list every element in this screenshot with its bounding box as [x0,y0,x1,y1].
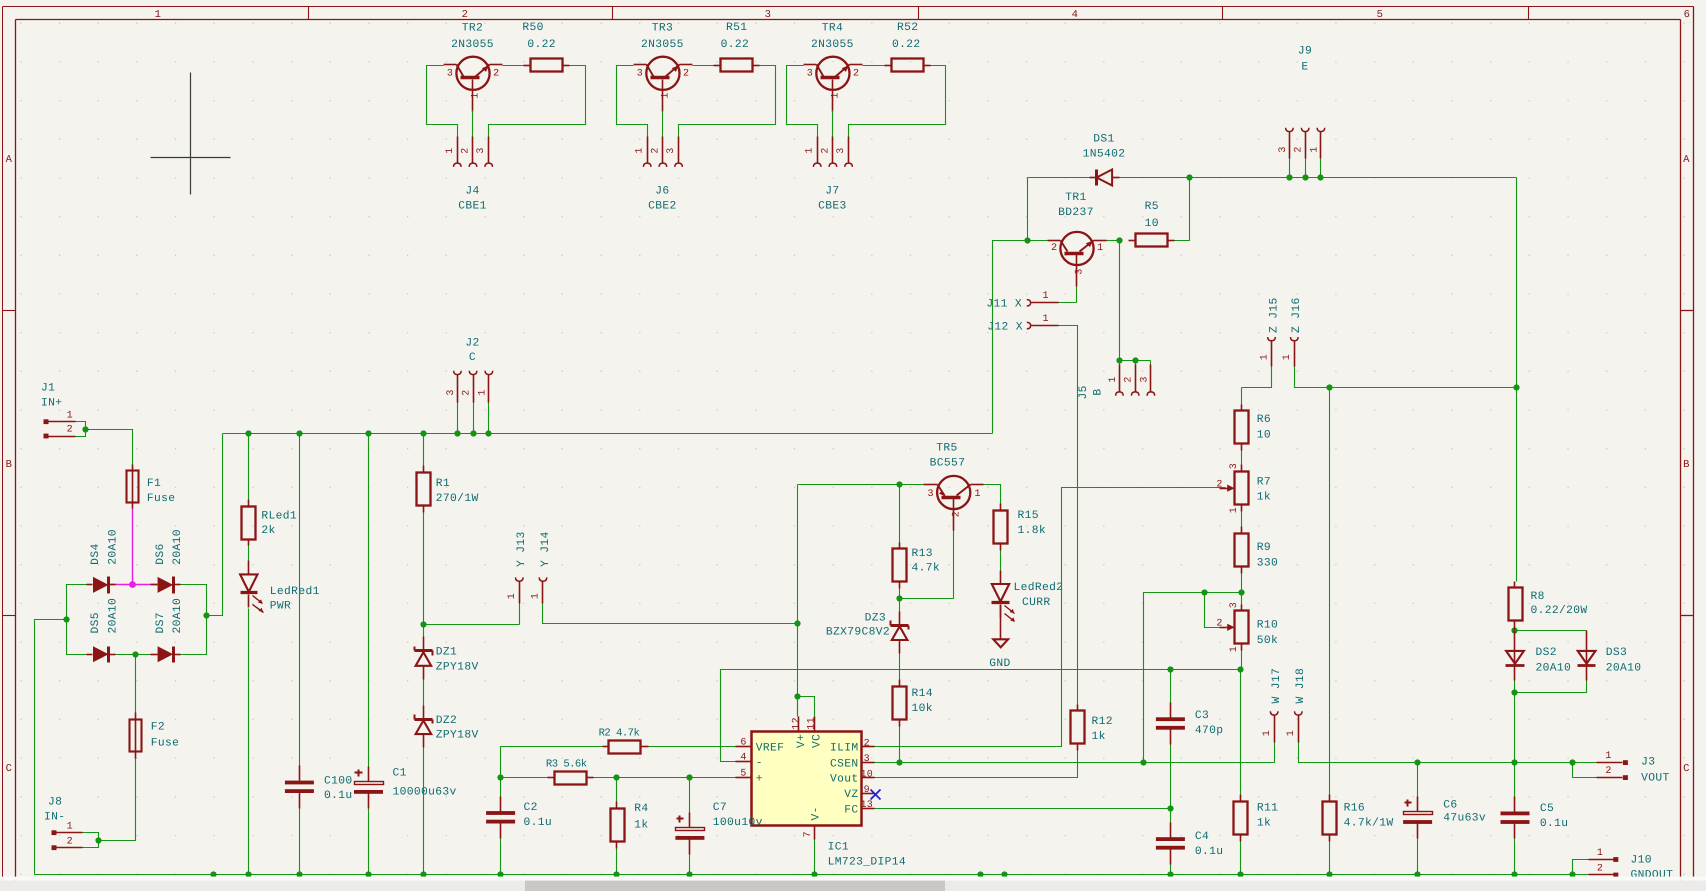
svg-text:2: 2 [1605,766,1611,777]
svg-text:C4: C4 [1195,831,1209,843]
svg-text:R3 5.6k: R3 5.6k [546,759,587,771]
svg-text:10000u63v: 10000u63v [393,786,457,798]
connector J10 GNDOUT [1589,848,1674,882]
resistor R15 1.8k [994,504,1047,551]
svg-text:3: 3 [1229,463,1240,469]
junction bus R1 [420,430,426,436]
capacitor C1 10000u63v [354,434,457,809]
svg-text:1.8k: 1.8k [1018,524,1047,537]
resistor R11 1k [1234,795,1279,842]
svg-text:DZ1: DZ1 [436,647,457,659]
svg-text:20A10: 20A10 [172,598,184,634]
connector J8 IN- [44,796,83,850]
resistor RLed1 2k [242,434,298,546]
svg-text:BZX79C8V2: BZX79C8V2 [826,627,890,639]
wire R12 to Vout line [875,751,1078,778]
svg-text:C7: C7 [713,802,727,814]
svg-text:R16: R16 [1344,803,1365,815]
svg-text:1k: 1k [1257,816,1271,829]
svg-text:2: 2 [683,68,689,79]
wire TR1 base [1028,240,1048,242]
junction R8/DS2 top [1511,627,1517,633]
svg-text:LedRed1: LedRed1 [270,585,320,598]
connector J1 IN+ [41,383,76,439]
wire emitter riser to R8 [1516,387,1518,582]
svg-text:13: 13 [860,800,873,811]
svg-text:DS4: DS4 [90,543,102,564]
svg-text:A: A [1683,154,1690,166]
svg-text:J1: J1 [41,383,55,395]
svg-text:VOUT: VOUT [1641,772,1670,784]
svg-text:F1: F1 [147,478,161,490]
junction DS2 bottom [1511,689,1517,695]
svg-text:1: 1 [1043,314,1049,325]
svg-text:B: B [1683,459,1690,471]
wire R10 to feedback node [1241,651,1243,670]
wire R11 to ground rail [1240,842,1242,875]
svg-text:3: 3 [476,147,487,153]
svg-text:C: C [469,352,476,364]
wire DS3 bottom join [1515,681,1587,693]
svg-text:2: 2 [1216,619,1222,630]
svg-text:1: 1 [445,147,456,153]
svg-text:1: 1 [975,489,981,500]
svg-text:ZPY18V: ZPY18V [436,730,479,742]
wire TR4 base down [832,111,834,137]
wire DS2 bottom to Vout line [1514,681,1516,763]
svg-text:2: 2 [864,739,870,750]
svg-text:IN-: IN- [44,811,65,823]
wire DZ node to J13 [424,624,520,626]
wire TR2 base down [472,111,474,137]
svg-text:100u10v: 100u10v [713,817,763,829]
junction R10 wiper branch [1201,589,1207,595]
junction bridge bottom center [132,651,138,657]
connector J9 E [1278,46,1325,178]
junction bridge left (IN- node) [63,616,69,622]
capacitor C4 0.1u [1156,809,1224,865]
svg-text:3: 3 [928,489,934,500]
svg-text:1k: 1k [634,818,648,831]
svg-text:2: 2 [820,147,831,153]
svg-text:1: 1 [1309,146,1320,152]
junction J9 pin 1 [1317,174,1323,180]
svg-text:CSEN: CSEN [830,758,859,770]
svg-text:1: 1 [155,9,162,21]
diode DS4 20A10 [87,529,120,593]
junction J1 output [82,426,88,432]
junction J5 pin 1 [1116,357,1122,363]
capacitor C100 0.1u [285,434,353,809]
connector J15 Z [1259,297,1280,366]
svg-text:C: C [6,763,13,775]
wire DS1 cathode to TR1 base node [1027,178,1029,241]
capacitor C5 0.1u [1501,763,1569,839]
wire bridge right to main bus [207,434,223,616]
svg-text:20A10: 20A10 [1536,663,1572,675]
wire FC line [875,808,1171,810]
svg-text:12: 12 [791,717,802,730]
svg-text:0.22: 0.22 [892,39,921,51]
svg-text:+: + [756,774,763,786]
diode DS5 20A10 [87,598,120,663]
wire R2 left to plus node [501,747,603,778]
svg-text:1: 1 [67,821,73,832]
svg-text:1: 1 [830,92,841,98]
svg-text:R50: R50 [522,22,543,34]
transistor TR4 [804,22,863,111]
wire TR5 rail to IC V+ riser [797,485,799,717]
wire J17 to CSEN line [1274,743,1276,763]
svg-text:3: 3 [864,754,870,765]
resistor R16 4.7k/1W [1323,795,1394,842]
svg-text:3: 3 [666,147,677,153]
junction ground C7 [686,871,692,877]
svg-text:TR1: TR1 [1065,192,1086,204]
svg-text:10k: 10k [912,702,933,715]
wire R14 to CSEN line [899,727,901,763]
wire R9 to R10 [1241,574,1243,605]
svg-text:1: 1 [1286,730,1297,736]
svg-text:3: 3 [447,68,453,79]
svg-text:2N3055: 2N3055 [641,39,684,51]
wire C100 to ground rail [299,809,301,875]
svg-text:DZ3: DZ3 [865,612,886,624]
wire C2 to ground rail [500,839,502,875]
wire TR4 collector loop [787,66,818,137]
svg-text:2: 2 [1597,864,1603,875]
junction J8 output [95,837,101,843]
junction C7 top [686,774,692,780]
svg-text:3: 3 [446,389,457,395]
junction J5 pin 2 [1132,357,1138,363]
junction ground stray c [1001,871,1007,877]
junction bridge top center (highlighted) [129,581,136,588]
transistor TR5 BC557 [924,443,984,531]
svg-text:1N5402: 1N5402 [1083,148,1126,160]
svg-text:3: 3 [765,9,772,21]
svg-text:2: 2 [493,68,499,79]
wire bridge bottom to F2 [135,655,137,713]
svg-text:0.1u: 0.1u [524,817,553,829]
svg-text:1: 1 [805,147,816,153]
junction TR1 base node [1024,237,1030,243]
svg-text:C1: C1 [393,767,407,779]
svg-text:A: A [6,154,13,166]
wire DZ1 to DZ2 [423,680,425,706]
resistor R52 [885,22,931,72]
svg-text:50k: 50k [1257,634,1278,647]
wire R3 to plus pin [594,777,736,779]
resistor R50 [522,22,569,72]
svg-text:2: 2 [951,511,962,517]
connector J16 Z [1282,297,1303,366]
wire TR1 base node to main bus [993,241,1028,434]
svg-text:CBE2: CBE2 [648,200,677,212]
svg-text:J3: J3 [1641,756,1655,768]
svg-text:C2: C2 [524,802,538,814]
wire bridge left to ground rail [35,620,67,875]
junction ground stray a [210,871,216,877]
connector J12 X [987,314,1058,334]
wire TR2 emitter loop [489,66,586,137]
wire bridge right side [181,585,207,655]
connector J13 Y [507,531,528,624]
junction bus RLed1 [245,430,251,436]
resistor R1 270/1W [417,434,479,513]
ic IC1 LM723_DIP14 [736,717,907,869]
junction R13 top [896,481,902,487]
svg-text:3: 3 [1075,268,1086,274]
svg-text:1: 1 [1108,376,1119,382]
wire TR1 emitter to R5 [1107,240,1120,242]
svg-text:2N3055: 2N3055 [451,39,494,51]
junction V+ pin jog [794,693,800,699]
svg-text:R7: R7 [1257,477,1271,489]
svg-text:R9: R9 [1257,542,1271,554]
svg-text:1k: 1k [1257,490,1271,503]
svg-text:0.1u: 0.1u [1195,846,1224,858]
wire top emitter bus [1028,178,1517,387]
wire TR3 emitter loop [679,66,776,137]
svg-text:0.1u: 0.1u [324,790,353,802]
svg-text:B: B [6,459,13,471]
junction ground R4 [613,871,619,877]
svg-text:F2: F2 [151,722,165,734]
svg-text:BD237: BD237 [1058,207,1094,219]
junction Vout C5 riser [1511,759,1517,765]
wire bridge top row (highlighted) [111,584,158,586]
fuse F1 [127,465,176,509]
wire DZ2 to ground rail [423,748,425,875]
resistor R51 [714,22,760,72]
junction ground C2 [497,871,503,877]
svg-text:E: E [1301,62,1308,74]
junction ground stray b [977,871,983,877]
svg-text:IC1: IC1 [828,842,849,854]
connector J6 CBE2 [635,137,683,213]
connector J2 C [446,338,493,434]
wire R6 to R7 [1241,451,1243,465]
wire DS2 top to DS3 [1515,630,1587,632]
junction plus divider node [497,774,503,780]
svg-text:20A10: 20A10 [107,529,119,565]
svg-text:Z J15: Z J15 [1268,297,1280,333]
svg-text:TR5: TR5 [936,443,957,455]
junction R13/DZ3 node [896,595,902,601]
svg-text:C3: C3 [1195,710,1209,722]
junction ground C6 [1414,871,1420,877]
wire F1 to bridge (highlighted) [132,509,134,585]
svg-text:10: 10 [860,770,873,781]
svg-text:J4: J4 [465,186,479,198]
svg-text:11: 11 [807,717,818,730]
connector J4 CBE1 [445,137,493,213]
junction R1/DZ1 node [420,621,426,627]
svg-text:DS3: DS3 [1606,647,1627,659]
svg-text:2: 2 [67,836,73,847]
svg-text:J6: J6 [655,186,669,198]
svg-text:VREF: VREF [756,743,785,755]
svg-text:1k: 1k [1092,730,1106,743]
svg-text:1: 1 [1259,354,1270,360]
wire bridge bottom center [116,654,151,656]
wire CSEN line [875,762,1275,764]
svg-text:R10: R10 [1257,620,1278,632]
svg-text:CBE1: CBE1 [458,200,487,212]
svg-text:TR3: TR3 [652,22,673,34]
resistor R3 5.6k [501,759,594,785]
svg-text:2: 2 [650,147,661,153]
diode DS3 20A10 [1578,631,1642,681]
wire J16 to emitter riser [1295,367,1517,388]
svg-text:J7: J7 [825,186,839,198]
wire minus input feedback [721,670,1241,762]
svg-text:4: 4 [740,753,746,764]
resistor R4 1k [611,778,649,849]
svg-text:-: - [756,758,763,770]
junction top bus / R5 riser [1186,174,1192,180]
junction bus J2 pin3 [454,430,460,436]
svg-text:20A10: 20A10 [1606,663,1642,675]
svg-text:10: 10 [1145,218,1159,230]
wire R10 wiper loop [1205,593,1220,628]
wire TR5 emitter rail [798,484,924,486]
svg-text:4: 4 [1072,9,1079,21]
svg-text:TR4: TR4 [822,22,843,34]
connector J7 CBE3 [805,137,853,213]
capacitor C3 470p [1156,670,1224,745]
svg-text:Y J14: Y J14 [540,531,552,567]
wire TR3 collector loop [617,66,648,137]
junction ground R16 [1326,871,1332,877]
junction bus C100 [296,430,302,436]
svg-text:6: 6 [740,738,746,749]
svg-text:10: 10 [1257,429,1271,441]
fuse F2 [130,713,180,759]
svg-text:J5: J5 [1078,385,1090,399]
svg-text:470p: 470p [1195,725,1224,737]
ground GND [989,605,1010,670]
wire C1 to ground rail [368,809,370,875]
svg-text:R5: R5 [1145,201,1159,213]
resistor R13 4.7k [893,485,941,589]
transistor TR2 [444,22,503,111]
svg-text:J10: J10 [1631,855,1652,867]
wire C7 to ground rail [689,855,691,875]
junction Vout J3 branch [1569,759,1575,765]
svg-text:3: 3 [836,147,847,153]
junction R16 riser top [1326,384,1332,390]
wire main V+ bus [223,433,993,435]
svg-text:W J17: W J17 [1271,668,1283,704]
svg-text:2: 2 [1124,376,1135,382]
resistor R2 4.7k [599,728,649,754]
potentiometer R10 50k [1216,602,1278,652]
diode DS2 20A10 [1506,628,1572,681]
wire TR2 collector loop [427,66,458,137]
svg-text:R13: R13 [912,548,933,560]
junction emitter riser mid [1513,384,1519,390]
svg-text:PWR: PWR [270,601,291,613]
wire J1 pins join [76,422,86,437]
capacitor C2 0.1u [486,778,552,839]
svg-text:R11: R11 [1257,803,1278,815]
wire TR5 collector to R15 [984,485,1001,505]
wire R4 to ground rail [616,849,618,875]
wire R2 to VREF pin [649,746,736,748]
svg-text:5: 5 [1377,9,1384,21]
svg-text:R4: R4 [634,803,648,815]
junction bus J2 pin2 [470,430,476,436]
svg-text:1: 1 [1097,243,1103,254]
svg-text:Y J13: Y J13 [516,531,528,567]
svg-text:FC: FC [844,804,858,816]
wire J3 branch [1573,763,1597,778]
svg-text:20A10: 20A10 [172,529,184,565]
wire R15 to LedRed2 [1000,551,1002,571]
svg-text:LedRed2: LedRed2 [1014,581,1064,594]
junction R10/R11 node [1237,666,1243,672]
junction CSEN R14 [896,759,902,765]
svg-text:ZPY18V: ZPY18V [436,661,479,673]
svg-text:VC: VC [811,734,823,748]
svg-text:0.22: 0.22 [527,39,556,51]
wire J10 branch [1573,860,1589,875]
wire IC V- to ground rail [814,840,816,875]
wire ILIM to R7 wiper [875,488,1226,747]
junction J9 pin 3 [1286,174,1292,180]
led LedRed2 CURR [992,571,1064,622]
wire J8 pins join [83,833,99,848]
wire DZ3 to R14 [899,654,901,680]
svg-text:1: 1 [507,593,518,599]
svg-text:R52: R52 [897,22,918,34]
svg-text:330: 330 [1257,557,1278,569]
svg-text:J9: J9 [1298,46,1312,58]
resistor R6 10 [1235,388,1272,451]
svg-text:2: 2 [462,9,469,21]
junction ground C1 [365,871,371,877]
wire R16 to ground rail [1329,842,1331,875]
svg-text:J2: J2 [465,338,479,350]
wire LedRed1 to ground rail [248,609,250,875]
transistor TR1 BD237 [1048,192,1107,287]
svg-text:2: 2 [461,147,472,153]
svg-text:Fuse: Fuse [147,493,176,505]
junction R4 top [613,774,619,780]
transistor TR3 [634,22,693,111]
wire CSEN riser to R9/R10 node [1144,593,1242,763]
svg-text:Vout: Vout [830,774,859,786]
svg-text:1: 1 [67,410,73,421]
wire R13 bottom to DZ3 node [899,589,901,599]
svg-text:3: 3 [807,68,813,79]
junction ground C100 [296,871,302,877]
junction ground IC V- [811,871,817,877]
svg-text:C: C [1683,763,1690,775]
connector J5 B [1078,361,1155,400]
svg-text:2: 2 [1294,146,1305,152]
capacitor C6 47u63v [1403,763,1486,839]
wire F2 to J8 [99,759,136,841]
svg-text:ILIM: ILIM [830,743,859,755]
svg-text:DS5: DS5 [90,612,102,633]
wire R16 riser [1329,388,1331,795]
junction ground C5 [1511,871,1517,877]
svg-text:R14: R14 [912,688,933,700]
svg-text:2N3055: 2N3055 [811,39,854,51]
